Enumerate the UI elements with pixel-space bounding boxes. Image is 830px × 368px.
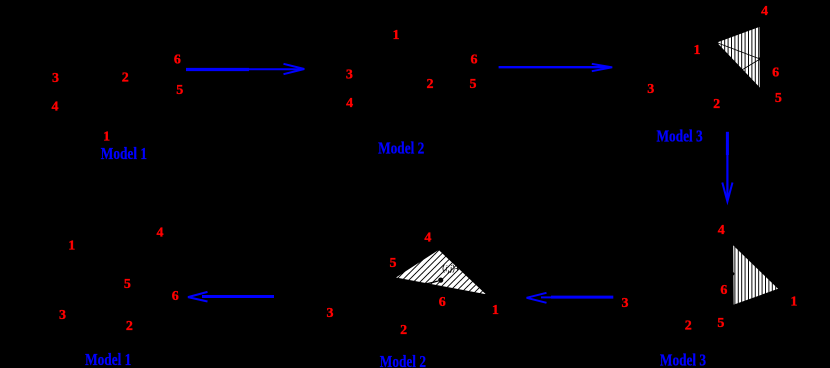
arrow A2: top Model 2 -> Model 3 bbox=[499, 64, 613, 71]
svg-text:Model 2: Model 2 bbox=[378, 139, 424, 158]
svg-text:4: 4 bbox=[718, 223, 725, 238]
label (i,j)+ bbox=[443, 265, 459, 273]
face triangle 4-5-1 hatched bbox=[395, 249, 488, 295]
svg-text:3: 3 bbox=[346, 68, 353, 83]
svg-text:3: 3 bbox=[52, 71, 59, 86]
svg-text:3: 3 bbox=[647, 82, 654, 97]
svg-text:4: 4 bbox=[157, 226, 164, 241]
svg-text:4: 4 bbox=[52, 100, 59, 115]
arrow A1: top Model 1 -> Model 2 bbox=[186, 64, 304, 74]
svg-text:3: 3 bbox=[59, 308, 66, 323]
svg-text:6: 6 bbox=[772, 66, 779, 81]
edge 1-6 bbox=[717, 43, 761, 60]
svg-text:4: 4 bbox=[761, 4, 768, 19]
svg-text:2: 2 bbox=[122, 71, 129, 86]
svg-text:5: 5 bbox=[470, 77, 477, 92]
arrow A3: vertical, top Model 3 -> bottom Model 3 bbox=[722, 132, 732, 202]
face triangle 4-5-1 hatched bbox=[731, 244, 779, 305]
svg-text:Model 3: Model 3 bbox=[660, 351, 706, 368]
svg-text:6: 6 bbox=[720, 283, 727, 298]
svg-text:1: 1 bbox=[492, 303, 499, 318]
svg-text:Model 1: Model 1 bbox=[85, 350, 131, 368]
svg-text:2: 2 bbox=[400, 323, 407, 338]
svg-text:Model 1: Model 1 bbox=[101, 144, 147, 163]
svg-text:Model 2: Model 2 bbox=[380, 352, 426, 368]
svg-text:5: 5 bbox=[775, 91, 782, 106]
svg-text:1: 1 bbox=[103, 130, 110, 145]
svg-text:6: 6 bbox=[471, 53, 478, 68]
svg-text:Model 3: Model 3 bbox=[657, 127, 703, 146]
svg-text:6: 6 bbox=[172, 289, 179, 304]
svg-text:5: 5 bbox=[717, 316, 724, 331]
svg-text:5: 5 bbox=[124, 277, 131, 292]
arrow A5: bottom Model 3 -> Model 2 (points left) bbox=[527, 293, 614, 303]
svg-text:2: 2 bbox=[685, 319, 692, 334]
arrow A4: bottom Model 2 -> Model 1 (points left) bbox=[188, 292, 274, 302]
svg-text:1: 1 bbox=[393, 28, 400, 43]
svg-text:2: 2 bbox=[713, 97, 720, 112]
node 6 dot bbox=[759, 57, 763, 61]
svg-text:5: 5 bbox=[390, 256, 397, 271]
svg-text:2: 2 bbox=[427, 77, 434, 92]
svg-text:3: 3 bbox=[327, 306, 334, 321]
svg-text:4: 4 bbox=[424, 231, 431, 246]
svg-text:3: 3 bbox=[622, 296, 629, 311]
svg-text:5: 5 bbox=[176, 83, 183, 98]
svg-text:6: 6 bbox=[439, 295, 446, 310]
svg-text:1: 1 bbox=[790, 294, 797, 309]
svg-text:1: 1 bbox=[68, 239, 75, 254]
face triangle 1-4-5 hatched bbox=[716, 26, 762, 89]
svg-text:4: 4 bbox=[346, 96, 353, 111]
node 6 dot bbox=[438, 278, 443, 283]
node 6 dot bbox=[731, 272, 735, 276]
edge 6-2 (clipped curve) bbox=[409, 281, 438, 284]
svg-text:6: 6 bbox=[174, 53, 181, 68]
svg-text:1: 1 bbox=[694, 43, 701, 58]
svg-text:2: 2 bbox=[126, 319, 133, 334]
edge 6-2 (clipped) bbox=[741, 59, 760, 71]
